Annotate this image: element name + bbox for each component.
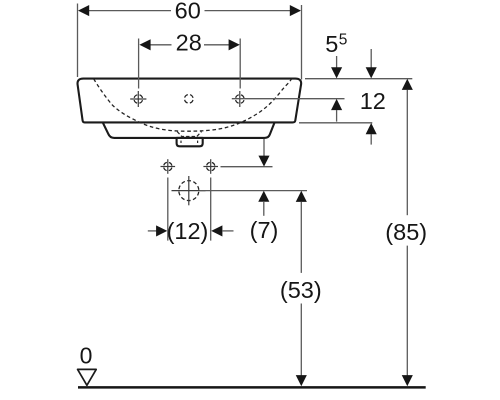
dimension (53): lower arrowhead (down) bbox=[296, 375, 307, 386]
overflow dashed circle center bbox=[185, 95, 194, 104]
extension line tap axis (y=98.7) bbox=[232, 98, 345, 100]
dimension 12: lower arrow tail bbox=[370, 134, 372, 145]
tap hole left bbox=[130, 91, 146, 107]
drain fitting tab bbox=[177, 138, 203, 146]
extension line basin bottom (y=122.8) bbox=[299, 122, 372, 124]
dimension 60: arrowhead right bbox=[290, 5, 301, 16]
dimension 7: upper arrow tail bbox=[263, 139, 265, 156]
svg-text:28: 28 bbox=[176, 29, 202, 55]
siphon dashed circle bbox=[172, 176, 206, 205]
dimension (12): left tail bbox=[148, 230, 157, 232]
drain funnel dashed bbox=[177, 132, 201, 137]
dimension (85): upper arrowhead (up) bbox=[402, 79, 413, 90]
floor level triangle bbox=[78, 369, 97, 385]
svg-text:0: 0 bbox=[80, 343, 93, 369]
dimension (85): lower arrowhead (down) bbox=[402, 375, 413, 386]
dimension 12: lower arrowhead (up) bbox=[366, 123, 377, 134]
dimension (12): left arrowhead (right-pointing) bbox=[156, 225, 167, 236]
tap hole right bbox=[236, 91, 245, 107]
svg-text:5: 5 bbox=[339, 31, 348, 48]
dimension 28: extension line right bbox=[239, 39, 241, 89]
drain tab tick left bbox=[180, 141, 182, 143]
dimension 5.5: lower arrow tail bbox=[336, 110, 338, 122]
dimension 60: line right segment bbox=[205, 10, 301, 12]
dimension (53): vertical line lower segment bbox=[300, 304, 302, 376]
dimension 12: upper arrowhead (down) bbox=[366, 67, 377, 78]
svg-text:5: 5 bbox=[325, 31, 338, 57]
dimension 28: line right segment bbox=[204, 44, 238, 46]
svg-text:(12): (12) bbox=[167, 218, 209, 244]
washbasin skirt (lower body) bbox=[103, 123, 275, 138]
svg-text:(85): (85) bbox=[385, 219, 427, 245]
dimension 7: upper arrowhead (down) bbox=[258, 156, 269, 167]
dimension 60: arrowhead left bbox=[78, 5, 89, 16]
fixing hole axis line (y=166.7) bbox=[221, 166, 273, 168]
svg-text:12: 12 bbox=[360, 88, 386, 114]
dimension 12: upper arrow tail bbox=[370, 49, 372, 68]
dimension (53): vertical line upper segment bbox=[300, 202, 302, 273]
dimension (85): vertical line lower segment bbox=[406, 246, 408, 376]
extension line top of basin (y=78.7) bbox=[305, 78, 412, 80]
dimension 60: extension line right bbox=[301, 5, 303, 80]
dimension 5.5: upper arrow tail bbox=[336, 56, 338, 68]
dimension (85): vertical line upper segment bbox=[406, 90, 408, 215]
floor line bbox=[78, 386, 426, 389]
washbasin main body bbox=[78, 79, 302, 123]
dimension 7: lower arrowhead (up) bbox=[258, 191, 269, 202]
dimension 60: line left segment bbox=[80, 10, 171, 12]
dimension 28: arrowhead right bbox=[229, 39, 240, 50]
fixing hole right bbox=[203, 159, 218, 174]
dimension 28: arrowhead left bbox=[139, 39, 150, 50]
dimension (12): extension line left bbox=[167, 178, 169, 241]
dimension 5.5: upper arrowhead (down) bbox=[331, 67, 342, 78]
dimension 60: extension line left bbox=[77, 4, 79, 78]
siphon axis line (y=190.6) bbox=[200, 190, 308, 192]
drain tab tick right bbox=[197, 141, 199, 143]
dimension 28: extension line left bbox=[138, 39, 140, 89]
dimension 28: line left segment bbox=[141, 44, 172, 46]
dimension 5.5: lower arrowhead (up) bbox=[331, 99, 342, 110]
dimension 7: lower arrow tail bbox=[263, 202, 265, 216]
svg-text:(7): (7) bbox=[250, 217, 279, 243]
dimension (12): right tail bbox=[223, 230, 234, 232]
svg-text:60: 60 bbox=[175, 0, 201, 24]
fixing hole left bbox=[161, 159, 176, 174]
svg-text:(53): (53) bbox=[280, 277, 322, 303]
dimension (12): extension line right bbox=[210, 178, 212, 241]
dimension (53): upper arrowhead (up) bbox=[296, 191, 307, 202]
dimension (12): right arrowhead (left-pointing) bbox=[211, 225, 222, 236]
inner bowl dashed outline bbox=[94, 79, 292, 131]
